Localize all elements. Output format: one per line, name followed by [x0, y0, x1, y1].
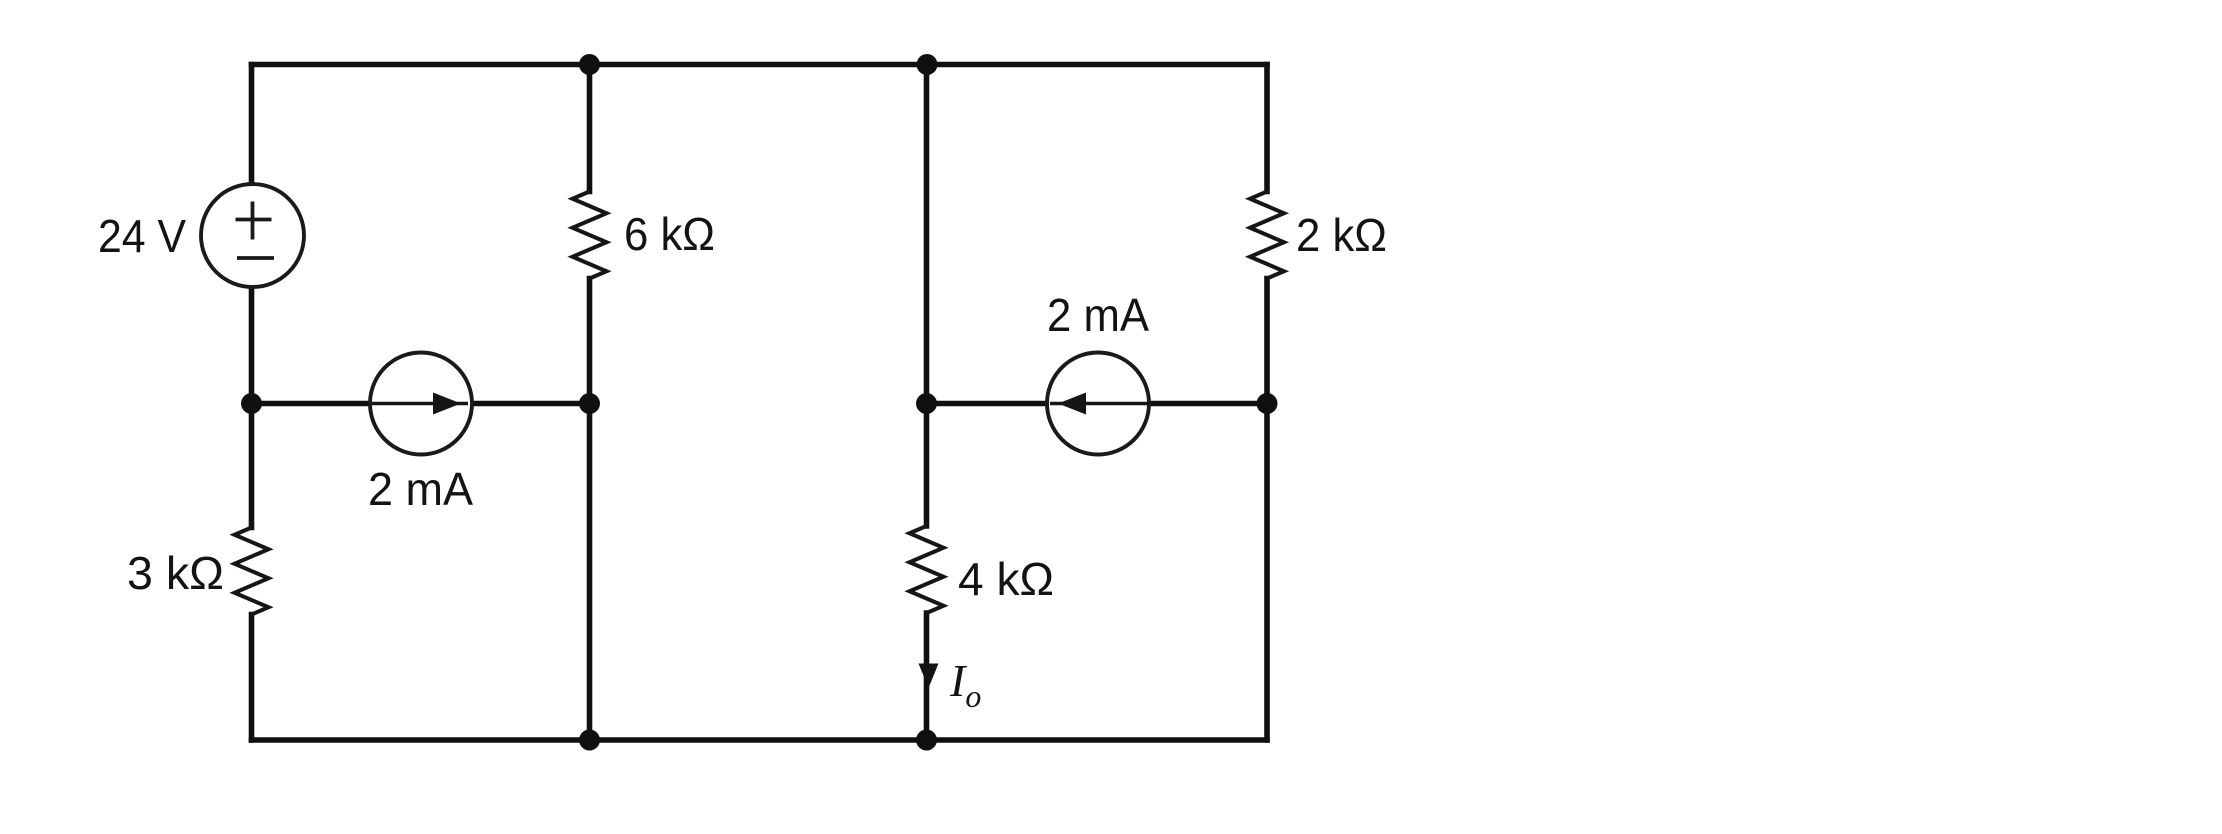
resistor 2 kOhm zigzag	[1250, 192, 1284, 279]
wire: 4k branch upper segment (top rail to 4k resistor)	[924, 65, 930, 527]
svg-text:2 mA: 2 mA	[1047, 289, 1149, 341]
wire: 6k branch lower segment (6k resistor to bottom rail)	[587, 279, 593, 741]
current source I2 arrow line	[1050, 402, 1148, 406]
wire: middle-left wire, left current source to 6k branch	[471, 401, 590, 407]
wire: left branch upper segment (top rail to voltage source)	[249, 65, 255, 185]
current source I1 arrowhead (pointing right)	[433, 393, 461, 415]
wire: left branch middle segment (voltage source to 3k resistor)	[249, 287, 255, 528]
wire: 4k branch lower segment (4k resistor to bottom rail)	[924, 613, 930, 740]
wire: bottom rail	[252, 737, 1268, 743]
voltage source V1 minus sign	[237, 256, 274, 260]
wire: right branch lower segment (2k resistor to bottom rail)	[1264, 279, 1270, 741]
wire: middle-left wire, node A to left current source	[252, 401, 372, 407]
wire: right branch upper segment (top rail to 2k resistor)	[1264, 65, 1270, 192]
wire: 6k branch upper segment (top rail to 6k resistor)	[587, 65, 593, 192]
resistor 6 kOhm zigzag	[573, 192, 607, 279]
voltage source V1 plus sign	[236, 202, 272, 240]
voltage source V1 24V circle	[201, 184, 304, 287]
wire: middle-right wire, 4k branch to right current source	[927, 401, 1049, 407]
svg-text:4 kΩ: 4 kΩ	[958, 553, 1054, 605]
wire: left branch lower segment (3k resistor to bottom rail)	[249, 615, 255, 741]
node dot: 4k branch / middle-right wire	[916, 393, 937, 414]
current source I1 (left 2 mA) circle	[370, 353, 472, 455]
node dot: bottom rail / 6k branch	[579, 730, 600, 751]
svg-text:6 kΩ: 6 kΩ	[624, 208, 715, 260]
current source I2 arrowhead (pointing left)	[1058, 393, 1086, 415]
svg-text:Io: Io	[949, 655, 981, 714]
svg-text:3 kΩ: 3 kΩ	[127, 547, 224, 599]
svg-text:24 V: 24 V	[98, 210, 186, 262]
wire: top rail from top-left corner to top-right corner	[252, 62, 1268, 68]
node dot: top rail / 6k branch	[579, 54, 600, 75]
svg-text:2 kΩ: 2 kΩ	[1296, 209, 1387, 261]
resistor 4 kOhm zigzag	[910, 526, 944, 613]
wire: middle-right wire, right current source to right branch	[1148, 401, 1267, 407]
arrowhead of output current Io on 4k branch	[919, 664, 939, 689]
current source I1 arrow line	[371, 402, 468, 406]
svg-text:2 mA: 2 mA	[368, 463, 473, 515]
resistor 3 kOhm zigzag	[235, 528, 269, 615]
node dot: bottom rail / 4k branch	[916, 730, 937, 751]
node dot: top rail / 4k branch	[917, 54, 938, 75]
node dot: right branch / middle-right wire	[1257, 393, 1278, 414]
node dot: left branch / middle-left wire	[241, 393, 262, 414]
current source I2 (right 2 mA) circle	[1047, 353, 1149, 455]
node dot: 6k branch / middle-left wire	[579, 393, 600, 414]
